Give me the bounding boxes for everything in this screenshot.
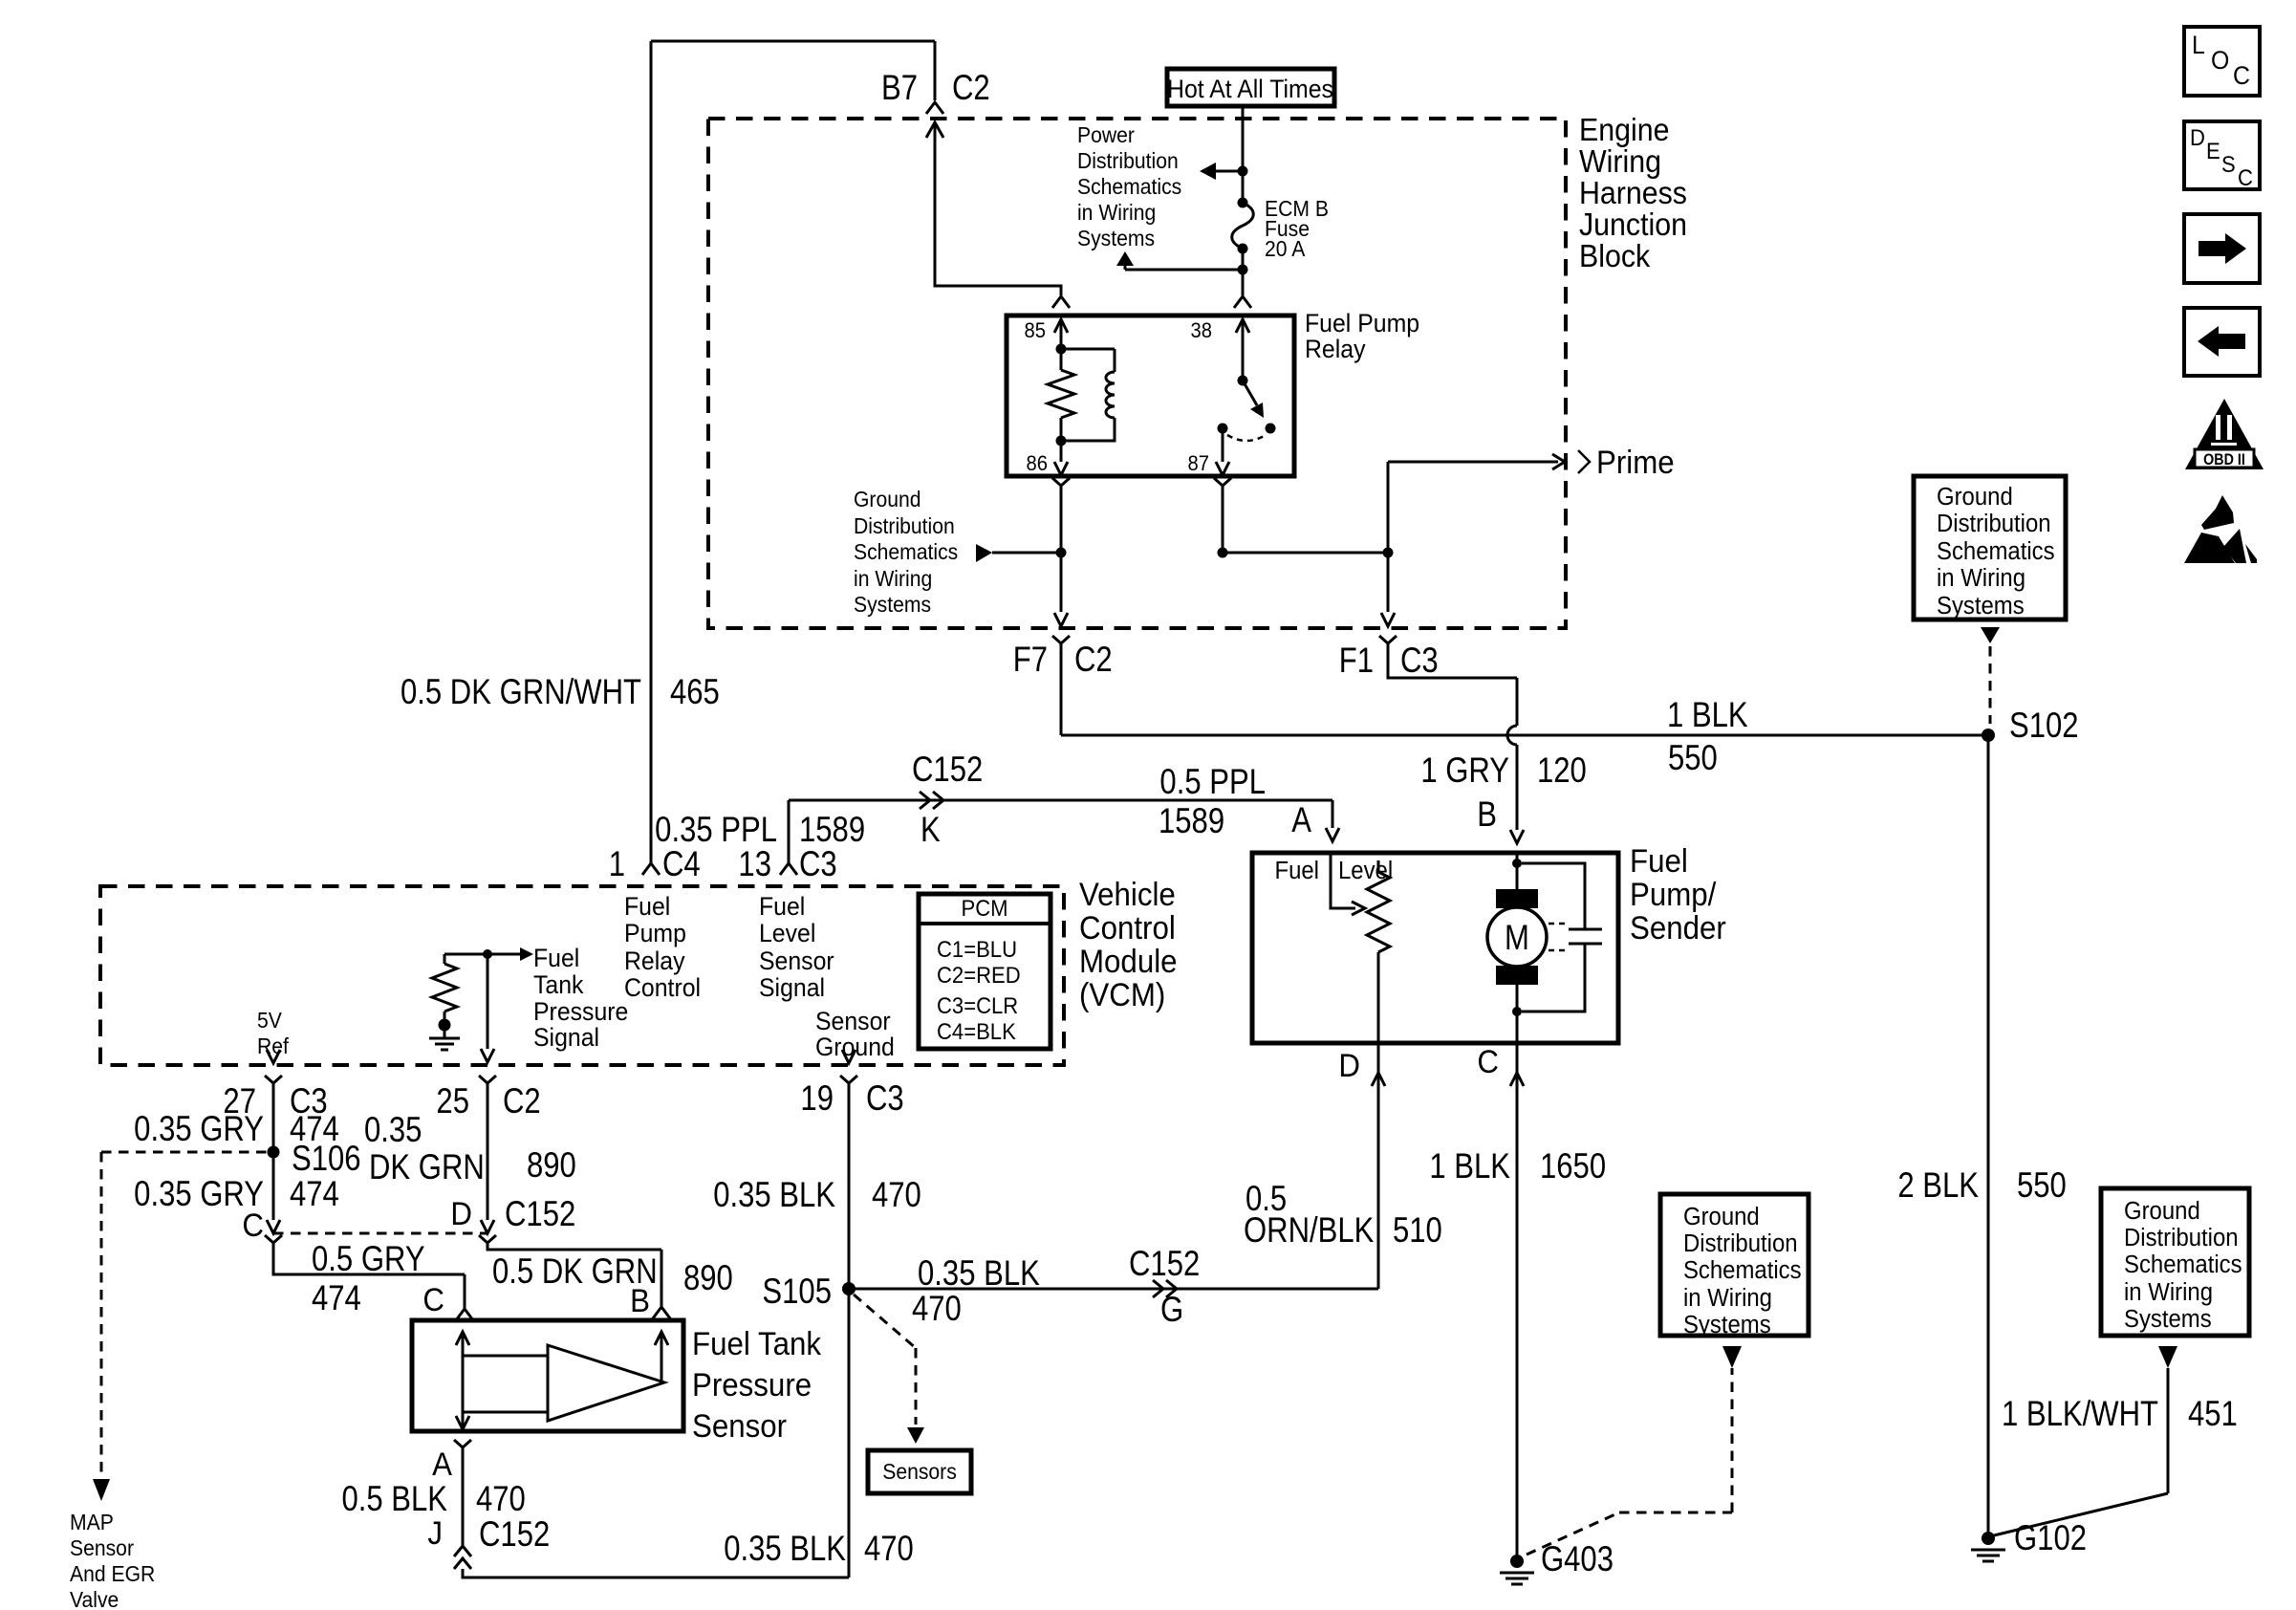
svg-text:0.5 BLK: 0.5 BLK (341, 1480, 447, 1519)
svg-text:Control: Control (624, 974, 701, 1002)
svg-text:474: 474 (312, 1279, 361, 1318)
svg-text:Ground: Ground (815, 1033, 895, 1061)
svg-text:E: E (2206, 138, 2220, 163)
svg-text:A: A (1291, 801, 1311, 840)
svg-text:1589: 1589 (799, 811, 865, 850)
svg-text:Pump/: Pump/ (1630, 876, 1717, 913)
svg-text:Systems: Systems (1077, 226, 1155, 250)
svg-text:C3: C3 (799, 845, 837, 884)
svg-text:1650: 1650 (1540, 1147, 1606, 1186)
svg-text:C4=BLK: C4=BLK (937, 1018, 1016, 1044)
svg-text:Fuel: Fuel (1274, 857, 1319, 884)
svg-text:474: 474 (290, 1175, 339, 1214)
svg-text:Schematics: Schematics (1077, 174, 1181, 199)
svg-text:Ground: Ground (854, 487, 921, 511)
svg-text:890: 890 (683, 1259, 733, 1298)
svg-text:Fuel: Fuel (1630, 842, 1688, 880)
svg-text:19: 19 (800, 1079, 834, 1119)
svg-text:Sensors: Sensors (882, 1459, 957, 1484)
svg-text:G102: G102 (2014, 1519, 2087, 1558)
svg-text:Control: Control (1079, 909, 1176, 946)
svg-text:20 A: 20 A (1265, 236, 1306, 261)
svg-text:0.5 GRY: 0.5 GRY (312, 1240, 425, 1279)
svg-text:C152: C152 (912, 751, 983, 790)
svg-text:Pressure: Pressure (692, 1366, 812, 1403)
svg-text:0.35 BLK: 0.35 BLK (724, 1530, 846, 1569)
svg-text:B7: B7 (881, 69, 918, 108)
svg-text:Schematics: Schematics (1683, 1256, 1802, 1284)
svg-text:Systems: Systems (854, 592, 931, 617)
svg-text:0.5 DK GRN/WHT: 0.5 DK GRN/WHT (401, 673, 641, 712)
svg-text:470: 470 (476, 1480, 526, 1519)
svg-text:C: C (242, 1207, 264, 1244)
svg-text:Fuel: Fuel (533, 945, 579, 972)
svg-text:Fuel: Fuel (759, 893, 805, 921)
svg-text:Hot At All Times: Hot At All Times (1167, 76, 1333, 103)
svg-text:Fuel Pump: Fuel Pump (1305, 310, 1419, 337)
svg-text:F7: F7 (1013, 641, 1048, 680)
svg-text:J: J (427, 1514, 443, 1552)
svg-text:Systems: Systems (1683, 1311, 1771, 1338)
svg-text:Block: Block (1579, 238, 1650, 273)
svg-text:Distribution: Distribution (854, 513, 955, 538)
svg-text:D: D (450, 1195, 472, 1232)
svg-text:Sensor: Sensor (692, 1407, 787, 1445)
svg-text:G: G (1160, 1291, 1183, 1330)
svg-text:C2: C2 (1074, 641, 1113, 680)
svg-text:Systems: Systems (2124, 1305, 2212, 1333)
svg-text:470: 470 (912, 1290, 962, 1329)
svg-text:G403: G403 (1541, 1540, 1614, 1579)
svg-text:1 BLK/WHT: 1 BLK/WHT (2002, 1395, 2158, 1434)
svg-text:465: 465 (670, 673, 720, 712)
svg-text:0.35 PPL: 0.35 PPL (655, 811, 777, 850)
svg-text:470: 470 (872, 1176, 921, 1215)
svg-text:F1: F1 (1339, 642, 1374, 681)
svg-text:C152: C152 (505, 1195, 575, 1234)
svg-text:C4: C4 (662, 845, 701, 884)
svg-text:87: 87 (1187, 452, 1209, 475)
svg-text:1: 1 (609, 845, 625, 884)
svg-text:0.35 GRY: 0.35 GRY (134, 1110, 264, 1149)
svg-text:C: C (2238, 164, 2253, 190)
svg-text:Engine: Engine (1579, 112, 1669, 147)
svg-text:38: 38 (1190, 319, 1212, 342)
svg-text:in Wiring: in Wiring (1937, 564, 2025, 592)
svg-text:25: 25 (436, 1082, 469, 1121)
svg-text:L: L (2192, 32, 2205, 59)
svg-text:PCM: PCM (961, 895, 1007, 921)
svg-text:120: 120 (1537, 751, 1587, 791)
svg-text:Valve: Valve (70, 1587, 119, 1610)
svg-text:86: 86 (1026, 452, 1048, 475)
svg-text:550: 550 (1668, 739, 1718, 778)
svg-text:Harness: Harness (1579, 175, 1687, 210)
svg-text:in Wiring: in Wiring (2124, 1278, 2213, 1306)
svg-text:in Wiring: in Wiring (1077, 200, 1156, 225)
svg-text:Power: Power (1077, 122, 1135, 147)
svg-text:1 GRY: 1 GRY (1420, 751, 1509, 791)
svg-text:S106: S106 (292, 1140, 361, 1179)
svg-text:510: 510 (1393, 1211, 1442, 1251)
svg-text:Schematics: Schematics (854, 539, 958, 564)
svg-text:Level: Level (759, 920, 815, 947)
svg-text:Distribution: Distribution (1077, 148, 1179, 173)
svg-text:Pump: Pump (624, 920, 686, 947)
svg-text:C: C (2233, 62, 2250, 90)
svg-text:Distribution: Distribution (2124, 1224, 2239, 1251)
svg-text:C1=BLU: C1=BLU (937, 936, 1017, 962)
svg-text:1589: 1589 (1159, 802, 1224, 841)
svg-text:C2: C2 (952, 69, 990, 108)
svg-text:Systems: Systems (1937, 592, 2025, 620)
svg-text:DK GRN: DK GRN (369, 1148, 485, 1187)
svg-text:O: O (2211, 47, 2229, 75)
svg-text:451: 451 (2188, 1395, 2238, 1434)
svg-text:Sender: Sender (1630, 909, 1726, 946)
svg-text:890: 890 (527, 1146, 576, 1186)
svg-text:D: D (1338, 1047, 1360, 1084)
svg-text:85: 85 (1024, 319, 1046, 342)
svg-text:Schematics: Schematics (2124, 1251, 2242, 1278)
svg-text:C2=RED: C2=RED (937, 962, 1021, 988)
svg-text:S105: S105 (762, 1273, 832, 1312)
svg-text:C3=CLR: C3=CLR (937, 992, 1018, 1018)
svg-text:13: 13 (738, 845, 771, 884)
svg-text:Ref: Ref (257, 1033, 290, 1058)
svg-text:Junction: Junction (1579, 207, 1687, 242)
svg-text:Sensor: Sensor (70, 1535, 134, 1560)
svg-text:Fuel Tank: Fuel Tank (692, 1325, 822, 1362)
svg-text:0.35: 0.35 (364, 1111, 422, 1150)
svg-text:Tank: Tank (533, 971, 583, 999)
svg-text:Sensor: Sensor (759, 947, 834, 975)
svg-text:5V: 5V (257, 1008, 282, 1033)
svg-text:470: 470 (864, 1530, 914, 1569)
svg-text:C3: C3 (866, 1079, 904, 1119)
svg-text:Relay: Relay (1305, 336, 1366, 363)
svg-text:C: C (422, 1281, 444, 1318)
svg-text:S102: S102 (2009, 707, 2079, 746)
svg-text:Sensor: Sensor (815, 1008, 891, 1035)
svg-text:ORN/BLK: ORN/BLK (1244, 1211, 1375, 1251)
svg-text:Schematics: Schematics (1937, 537, 2055, 565)
svg-text:0.35 BLK: 0.35 BLK (713, 1176, 835, 1215)
svg-text:Relay: Relay (624, 947, 685, 975)
svg-text:Distribution: Distribution (1937, 510, 2051, 537)
svg-text:C152: C152 (479, 1515, 550, 1555)
svg-text:C3: C3 (1400, 642, 1439, 681)
svg-text:And EGR: And EGR (70, 1561, 155, 1586)
svg-text:K: K (921, 811, 941, 850)
svg-text:0.35 BLK: 0.35 BLK (918, 1254, 1040, 1294)
svg-text:D: D (2190, 124, 2205, 150)
svg-text:C2: C2 (503, 1082, 541, 1121)
svg-text:Signal: Signal (533, 1024, 599, 1052)
svg-text:B: B (630, 1282, 650, 1319)
svg-text:Vehicle: Vehicle (1079, 876, 1176, 913)
svg-text:1 BLK: 1 BLK (1429, 1147, 1510, 1186)
svg-text:in Wiring: in Wiring (1683, 1284, 1772, 1312)
svg-text:Prime: Prime (1596, 444, 1675, 481)
svg-text:0.5 PPL: 0.5 PPL (1159, 763, 1266, 802)
svg-text:Ground: Ground (1683, 1203, 1760, 1230)
svg-text:Fuel: Fuel (624, 893, 670, 921)
svg-text:550: 550 (2017, 1166, 2067, 1206)
svg-text:C152: C152 (1129, 1245, 1200, 1284)
svg-text:M: M (1505, 919, 1529, 958)
svg-text:(VCM): (VCM) (1079, 976, 1165, 1013)
svg-text:Distribution: Distribution (1683, 1229, 1798, 1257)
svg-text:in Wiring: in Wiring (854, 566, 932, 591)
svg-text:C: C (1477, 1043, 1499, 1080)
svg-text:Wiring: Wiring (1579, 143, 1661, 179)
svg-text:B: B (1477, 795, 1497, 835)
svg-text:Module: Module (1079, 943, 1178, 980)
svg-text:Pressure: Pressure (533, 998, 628, 1026)
svg-text:MAP: MAP (70, 1510, 114, 1534)
svg-text:A: A (432, 1446, 452, 1483)
svg-text:Ground: Ground (1937, 483, 2013, 511)
svg-text:Signal: Signal (759, 974, 825, 1002)
svg-text:1 BLK: 1 BLK (1667, 696, 1748, 735)
svg-text:2 BLK: 2 BLK (1897, 1166, 1979, 1206)
svg-text:Ground: Ground (2124, 1197, 2200, 1225)
svg-text:S: S (2221, 151, 2236, 177)
